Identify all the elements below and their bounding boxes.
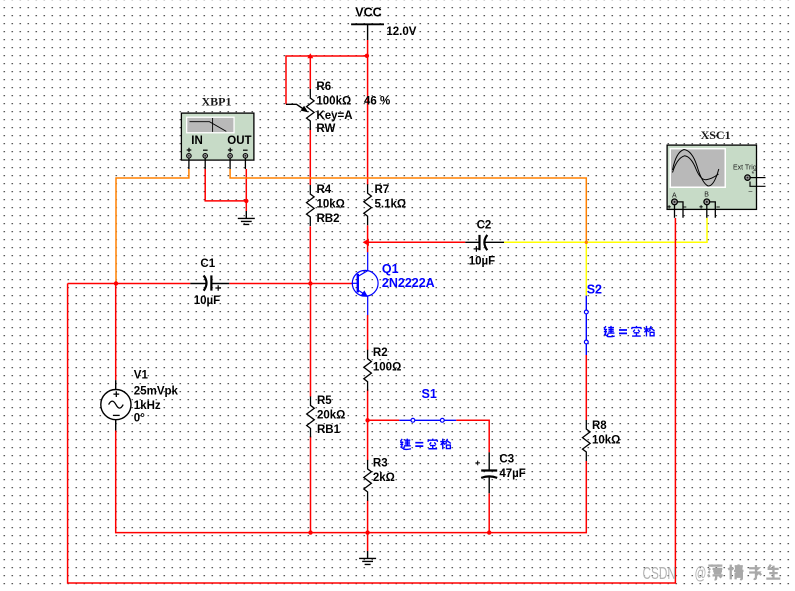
svg-text:B: B	[704, 191, 709, 198]
svg-text:R3: R3	[373, 458, 388, 470]
svg-text:2kΩ: 2kΩ	[373, 472, 395, 484]
svg-text:R7: R7	[375, 184, 390, 196]
svg-text:10µF: 10µF	[469, 256, 495, 268]
svg-text:1kHz: 1kHz	[134, 400, 161, 412]
svg-text:V1: V1	[134, 370, 149, 382]
svg-text:S2: S2	[587, 283, 602, 297]
svg-text:RB1: RB1	[317, 424, 341, 436]
svg-text:25mVpk: 25mVpk	[134, 386, 179, 398]
svg-text:XSC1: XSC1	[701, 128, 731, 142]
svg-text:R8: R8	[592, 420, 607, 432]
svg-text:CSDN: CSDN	[643, 564, 676, 584]
svg-text:R4: R4	[317, 184, 332, 196]
svg-text:100Ω: 100Ω	[373, 362, 401, 374]
svg-text:RW: RW	[316, 123, 335, 135]
svg-text:C1: C1	[200, 258, 215, 270]
svg-text:Key=A: Key=A	[316, 110, 352, 122]
svg-text:100kΩ: 100kΩ	[316, 96, 351, 108]
svg-text:12.0V: 12.0V	[386, 26, 416, 38]
svg-text:RB2: RB2	[317, 213, 340, 225]
svg-text:XBP1: XBP1	[202, 95, 232, 109]
svg-text:A: A	[672, 192, 677, 199]
svg-text:R2: R2	[373, 347, 388, 359]
svg-text:10kΩ: 10kΩ	[592, 435, 620, 447]
svg-text:IN: IN	[191, 135, 203, 147]
svg-text:C2: C2	[477, 220, 492, 232]
svg-text:5.1kΩ: 5.1kΩ	[375, 199, 407, 211]
svg-text:R6: R6	[316, 81, 331, 93]
svg-text:*: *	[752, 171, 755, 178]
svg-text:C3: C3	[499, 453, 514, 465]
svg-text:0°: 0°	[134, 413, 145, 425]
svg-text:2N2222A: 2N2222A	[382, 276, 435, 290]
svg-text:S1: S1	[422, 387, 437, 401]
svg-text:Q1: Q1	[382, 262, 399, 276]
svg-text:20kΩ: 20kΩ	[317, 410, 345, 422]
svg-text:46 %: 46 %	[364, 96, 390, 108]
svg-text:OUT: OUT	[227, 135, 251, 147]
svg-text:@: @	[695, 564, 707, 584]
svg-text:VCC: VCC	[355, 6, 381, 20]
svg-text:R5: R5	[317, 395, 332, 407]
svg-text:10kΩ: 10kΩ	[317, 199, 345, 211]
svg-text:10µF: 10µF	[194, 295, 220, 307]
svg-text:47µF: 47µF	[499, 468, 525, 480]
svg-text:–: –	[749, 188, 753, 195]
